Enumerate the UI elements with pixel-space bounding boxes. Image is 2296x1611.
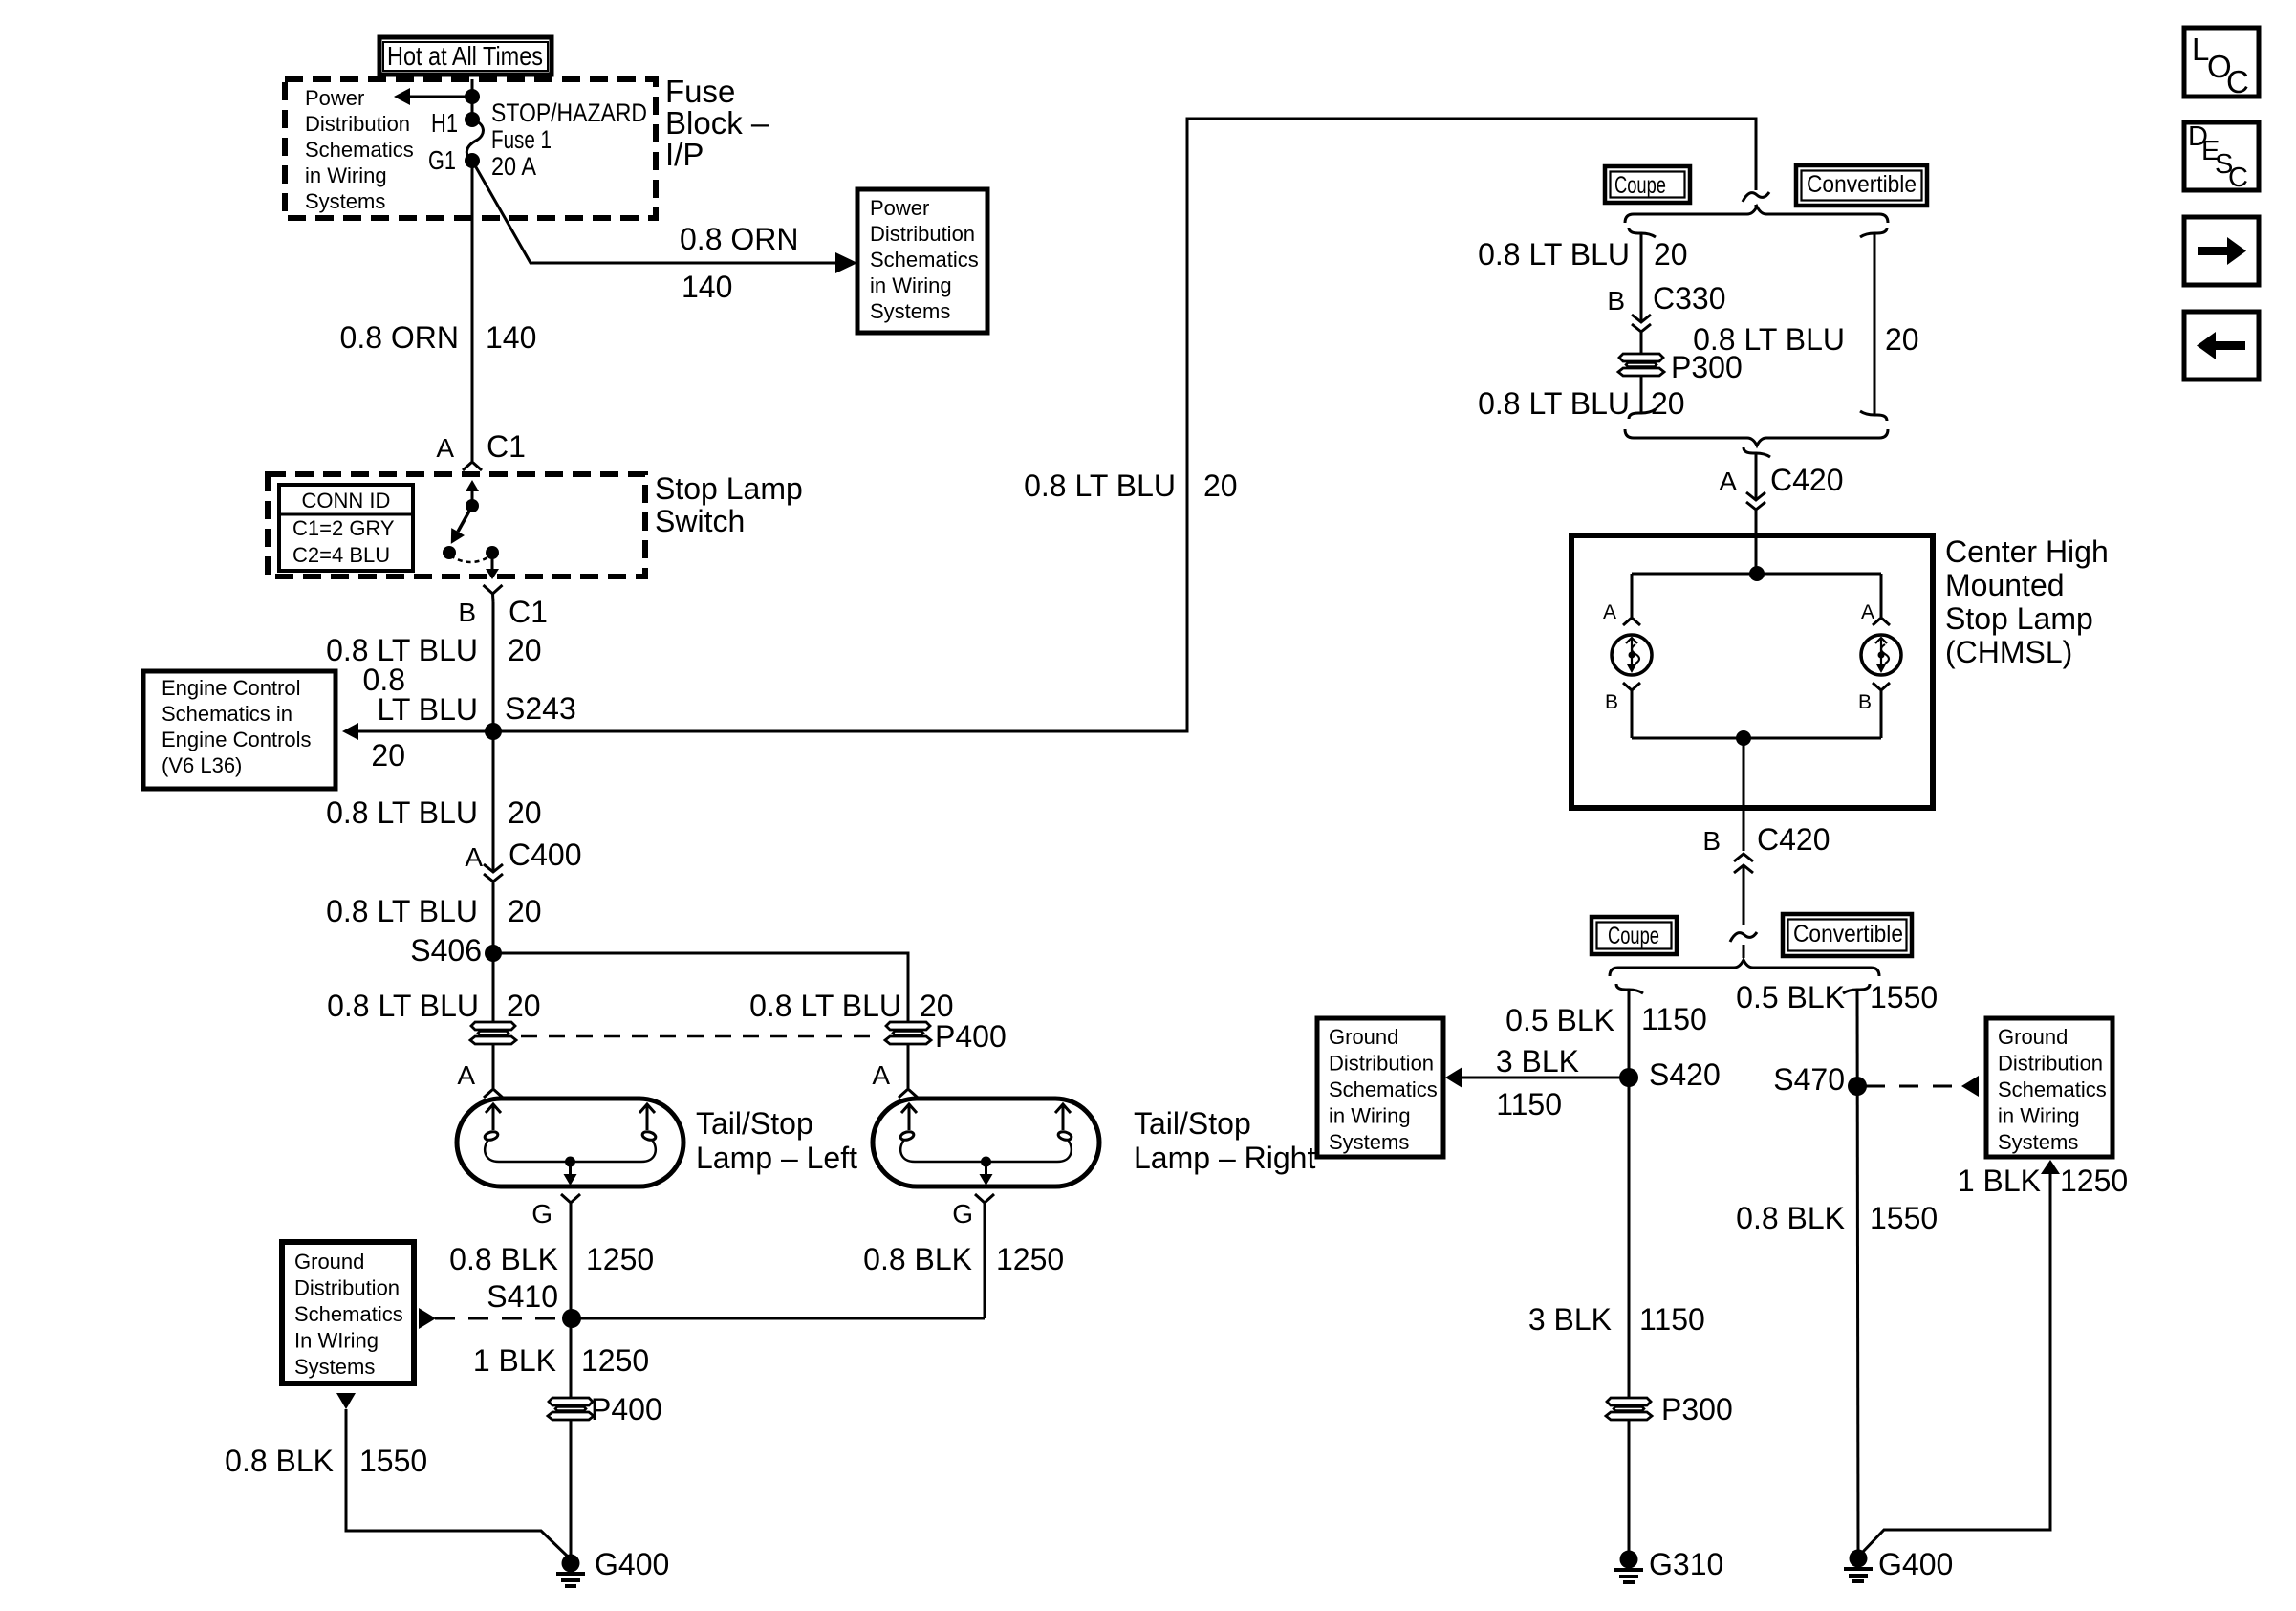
svg-text:G310: G310 [1649,1547,1723,1581]
svg-text:Lamp – Right: Lamp – Right [1134,1141,1315,1175]
svg-text:in Wiring: in Wiring [1998,1104,2080,1128]
svg-text:in Wiring: in Wiring [870,273,952,297]
svg-text:Power: Power [870,196,929,220]
svg-text:Stop Lamp: Stop Lamp [655,471,803,506]
svg-text:Ground: Ground [1329,1025,1398,1049]
svg-text:0.8 BLK: 0.8 BLK [225,1444,334,1478]
svg-text:3 BLK: 3 BLK [1528,1302,1612,1337]
svg-text:S420: S420 [1649,1057,1721,1092]
svg-text:0.8 LT BLU: 0.8 LT BLU [1024,468,1176,503]
svg-text:S470: S470 [1773,1062,1845,1097]
svg-text:1550: 1550 [1870,980,1938,1014]
svg-text:C420: C420 [1770,463,1844,497]
svg-text:P300: P300 [1661,1392,1733,1426]
svg-text:B: B [1858,691,1872,713]
svg-text:Switch: Switch [655,504,745,538]
svg-text:S243: S243 [505,691,576,726]
svg-text:0.8 ORN: 0.8 ORN [680,222,798,256]
svg-text:Schematics in: Schematics in [162,702,292,726]
svg-text:Systems: Systems [1329,1130,1409,1154]
svg-text:0.8 LT BLU: 0.8 LT BLU [326,894,478,928]
svg-text:In WIring: In WIring [294,1329,379,1353]
svg-text:S410: S410 [487,1279,558,1314]
svg-text:Distribution: Distribution [1998,1052,2103,1076]
svg-text:A: A [1603,601,1616,623]
svg-text:0.8 LT BLU: 0.8 LT BLU [1478,386,1630,421]
svg-text:20: 20 [1651,386,1685,421]
svg-text:C400: C400 [509,838,582,872]
svg-text:1150: 1150 [1496,1087,1562,1121]
svg-text:Power: Power [305,86,364,110]
svg-text:A: A [1719,467,1737,496]
svg-text:C: C [2228,163,2248,193]
svg-text:140: 140 [682,270,732,304]
svg-text:H1: H1 [431,108,458,138]
svg-text:Schematics: Schematics [294,1302,403,1326]
svg-text:P400: P400 [591,1392,662,1426]
svg-text:20: 20 [1885,322,1919,357]
svg-text:C1: C1 [487,429,526,464]
svg-text:1250: 1250 [586,1242,654,1276]
svg-text:G: G [952,1199,973,1229]
svg-text:20: 20 [920,989,954,1023]
svg-text:0.5 BLK: 0.5 BLK [1736,980,1845,1014]
svg-text:1250: 1250 [996,1242,1064,1276]
svg-text:G400: G400 [1878,1547,1953,1581]
svg-text:LT BLU: LT BLU [377,692,478,727]
svg-text:0.8 BLK: 0.8 BLK [863,1242,972,1276]
svg-text:Systems: Systems [870,299,950,323]
svg-text:Schematics: Schematics [1329,1078,1438,1101]
svg-text:0.8 LT BLU: 0.8 LT BLU [749,989,901,1023]
svg-text:Ground: Ground [1998,1025,2068,1049]
svg-text:A: A [872,1060,890,1090]
svg-text:20: 20 [1654,237,1688,272]
svg-text:B: B [458,598,476,627]
svg-text:S406: S406 [410,933,482,968]
svg-text:1 BLK: 1 BLK [473,1343,556,1378]
svg-text:Convertible: Convertible [1793,921,1903,947]
svg-text:Lamp – Left: Lamp – Left [696,1141,857,1175]
svg-text:Center High: Center High [1945,534,2109,569]
svg-text:Systems: Systems [1998,1130,2078,1154]
svg-text:Convertible: Convertible [1807,171,1917,198]
svg-text:Fuse: Fuse [665,74,735,109]
svg-text:Engine Control: Engine Control [162,676,301,700]
svg-text:A: A [457,1060,475,1090]
svg-text:Distribution: Distribution [305,112,410,136]
svg-text:0.8 ORN: 0.8 ORN [340,320,459,355]
svg-text:G400: G400 [595,1547,669,1581]
svg-text:Schematics: Schematics [870,248,979,272]
svg-text:3 BLK: 3 BLK [1496,1044,1579,1078]
svg-text:in Wiring: in Wiring [305,163,387,187]
svg-text:0.8 BLK: 0.8 BLK [449,1242,558,1276]
svg-text:20: 20 [508,894,542,928]
svg-text:Distribution: Distribution [870,222,975,246]
svg-text:0.8 LT BLU: 0.8 LT BLU [1693,322,1845,357]
svg-text:0.8 LT BLU: 0.8 LT BLU [326,795,478,830]
svg-text:A: A [1861,601,1874,623]
svg-text:20 A: 20 A [491,152,536,181]
svg-text:C330: C330 [1653,281,1726,316]
svg-text:Ground: Ground [294,1250,364,1274]
svg-text:(CHMSL): (CHMSL) [1945,635,2072,669]
svg-text:Coupe: Coupe [1614,172,1666,199]
svg-text:20: 20 [508,633,542,667]
svg-text:C2=4 BLU: C2=4 BLU [292,543,390,567]
svg-text:A: A [436,433,454,463]
svg-text:Fuse 1: Fuse 1 [491,125,552,154]
svg-text:1250: 1250 [581,1343,649,1378]
svg-text:20: 20 [1203,468,1238,503]
svg-text:Tail/Stop: Tail/Stop [696,1106,813,1141]
svg-text:Schematics: Schematics [1998,1078,2107,1101]
svg-text:CONN ID: CONN ID [302,489,391,512]
svg-text:Distribution: Distribution [1329,1052,1434,1076]
svg-text:B: B [1702,826,1721,856]
svg-text:0.8 BLK: 0.8 BLK [1736,1201,1845,1235]
svg-text:C1: C1 [509,595,548,629]
svg-text:1250: 1250 [2060,1164,2128,1198]
svg-text:C420: C420 [1757,822,1830,857]
svg-text:C1=2 GRY: C1=2 GRY [292,516,395,540]
svg-text:Engine Controls: Engine Controls [162,728,312,751]
svg-text:Block –: Block – [665,105,769,141]
svg-text:STOP/HAZARD: STOP/HAZARD [491,98,647,127]
svg-text:1550: 1550 [359,1444,427,1478]
svg-text:20: 20 [371,738,405,773]
svg-text:20: 20 [507,989,541,1023]
svg-text:Mounted: Mounted [1945,568,2065,602]
svg-text:Stop Lamp: Stop Lamp [1945,601,2093,636]
svg-text:Systems: Systems [294,1355,375,1379]
svg-text:Systems: Systems [305,189,385,213]
svg-text:Schematics: Schematics [305,138,414,162]
svg-text:140: 140 [486,320,536,355]
svg-text:P400: P400 [935,1019,1007,1054]
svg-text:20: 20 [508,795,542,830]
svg-text:0.8 LT BLU: 0.8 LT BLU [1478,237,1630,272]
svg-text:B: B [1607,286,1625,316]
svg-text:0.5 BLK: 0.5 BLK [1505,1003,1614,1037]
svg-text:B: B [1605,691,1618,713]
svg-text:C: C [2226,64,2249,99]
svg-text:G1: G1 [428,145,456,175]
svg-text:1150: 1150 [1641,1002,1707,1036]
svg-text:A: A [465,842,483,872]
svg-text:Hot at All Times: Hot at All Times [387,41,543,71]
svg-text:in Wiring: in Wiring [1329,1104,1411,1128]
svg-text:1550: 1550 [1870,1201,1938,1235]
svg-text:(V6 L36): (V6 L36) [162,753,242,777]
svg-text:Tail/Stop: Tail/Stop [1134,1106,1251,1141]
svg-text:Distribution: Distribution [294,1276,400,1300]
svg-text:G: G [531,1199,552,1229]
svg-text:I/P: I/P [665,137,704,172]
svg-text:1 BLK: 1 BLK [1958,1164,2041,1198]
svg-text:1150: 1150 [1639,1302,1705,1337]
svg-text:0.8 LT BLU: 0.8 LT BLU [327,989,479,1023]
svg-text:Coupe: Coupe [1608,923,1659,949]
